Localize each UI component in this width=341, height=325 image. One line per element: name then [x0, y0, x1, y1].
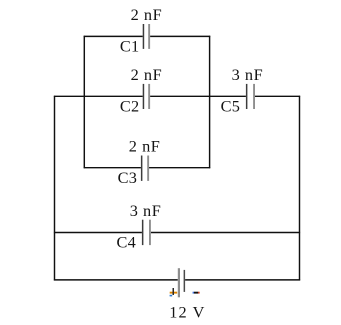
svg-text:3 nF: 3 nF	[130, 201, 162, 220]
svg-text:3 nF: 3 nF	[232, 65, 264, 84]
capacitor C3	[141, 156, 149, 181]
capacitor C4	[142, 220, 151, 245]
wire inner left vertical	[83, 36, 85, 169]
svg-text:12 V: 12 V	[169, 302, 205, 321]
svg-text:2 nF: 2 nF	[131, 5, 163, 24]
wire second rail right of C5	[255, 95, 300, 97]
wire outer right vertical	[299, 96, 301, 281]
wire second rail left of C2	[54, 95, 143, 97]
wire top rail right of C1	[150, 35, 210, 37]
wire third rail left of C3	[84, 167, 141, 169]
wire fourth rail left of C4	[54, 232, 142, 234]
battery plus terminal mark	[170, 288, 178, 296]
wire third rail right of C3	[149, 167, 210, 169]
svg-text:C3: C3	[118, 168, 138, 187]
battery 12 V	[178, 268, 185, 297]
svg-text:2 nF: 2 nF	[129, 137, 161, 156]
wire second rail between C2 and C5	[150, 95, 246, 97]
svg-text:2 nF: 2 nF	[131, 65, 163, 84]
wire outer left vertical	[54, 96, 56, 281]
capacitor C2	[143, 84, 150, 109]
wire inner right vertical	[209, 36, 211, 169]
capacitor C1	[143, 24, 150, 49]
wire bottom rail left of battery	[54, 279, 178, 281]
wire fourth rail right of C4	[151, 232, 300, 234]
wire top rail left of C1	[84, 35, 143, 37]
capacitor C5	[246, 84, 255, 109]
svg-text:C4: C4	[117, 233, 137, 252]
svg-text:C2: C2	[120, 97, 140, 116]
svg-text:C1: C1	[120, 37, 140, 56]
battery minus terminal mark	[193, 292, 200, 294]
svg-text:C5: C5	[221, 97, 241, 116]
wire bottom rail right of battery	[185, 279, 300, 281]
